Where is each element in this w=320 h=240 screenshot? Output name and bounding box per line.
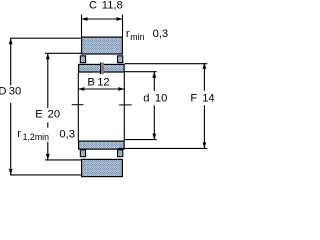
svg-text:D30: D30 — [0, 86, 21, 98]
svg-text:C11,8: C11,8 — [89, 0, 123, 12]
svg-text:F14: F14 — [190, 92, 214, 104]
svg-text:B12: B12 — [87, 76, 109, 88]
svg-text:d10: d10 — [143, 92, 167, 104]
svg-text:E20: E20 — [35, 109, 60, 121]
